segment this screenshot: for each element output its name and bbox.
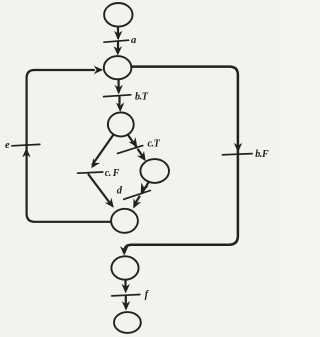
transition b.F bar [222,154,252,155]
arrowhead into P2 [114,46,122,56]
wire P2 to transition b.T [117,79,119,92]
wire d to P5 [136,197,140,204]
wire P1 to transition a [117,27,119,38]
transition b.T bar [104,95,131,97]
node P2 [104,56,132,79]
arrowhead into P3 [116,103,124,113]
svg-text:c.T: c.T [148,139,161,150]
wire P3 to transition c.T (diagonal) [128,135,137,148]
svg-text:c. F: c. F [105,168,120,179]
node P5 (merge place) [111,209,138,233]
wire P2 right to b.F and down to P6 [125,67,238,252]
arrowhead into P6 [120,246,128,256]
svg-text:b.F: b.F [255,149,269,160]
arrowhead into transition b.F [234,143,242,153]
wire P6 to transition f [124,280,126,289]
wire P5 left loop: left, up through e, right into P2 [27,70,111,222]
node P1 (start place) [104,3,132,27]
transition c.T bar [118,146,143,154]
node P3 [108,112,134,136]
arrowhead into P4 [137,151,146,161]
arrowhead into P5 (left) [105,198,114,208]
wire P3 to transition c.F (diagonal down-left) [93,135,114,165]
arrowhead into transition f [122,284,130,294]
wire c.T to P4 [138,150,143,157]
wire b.T to P3 [118,97,120,104]
arrowhead into P5 [133,198,141,208]
arrowhead into transition a [114,31,122,41]
arrowhead into P7 [122,301,130,311]
transition c.F bar [78,172,103,173]
transition e bar [12,144,40,145]
wire c.F to P5 [89,175,110,203]
wire f to P7 [125,297,127,304]
node P6 [111,256,138,279]
arrowhead into transition c.T [129,137,138,147]
wire a to P2 [117,43,119,49]
svg-text:e: e [5,140,10,151]
arrowhead into transition c.F [91,158,100,168]
transition d bar [124,191,151,200]
svg-text:d: d [117,185,123,196]
transition a bar [104,40,129,42]
arrowhead into transition e (pointing up) [22,148,30,158]
arrowhead into transition d [141,183,149,193]
node P4 [140,159,169,183]
node P7 (end place) [114,312,141,333]
arrowhead into P2 (from loop) [94,66,104,74]
svg-text:b.T: b.T [135,92,149,103]
transition f bar [112,295,140,296]
svg-text:a: a [131,35,136,46]
wire P4 to transition d (diagonal) [142,182,149,193]
arrowhead into transition b.T [115,85,123,95]
